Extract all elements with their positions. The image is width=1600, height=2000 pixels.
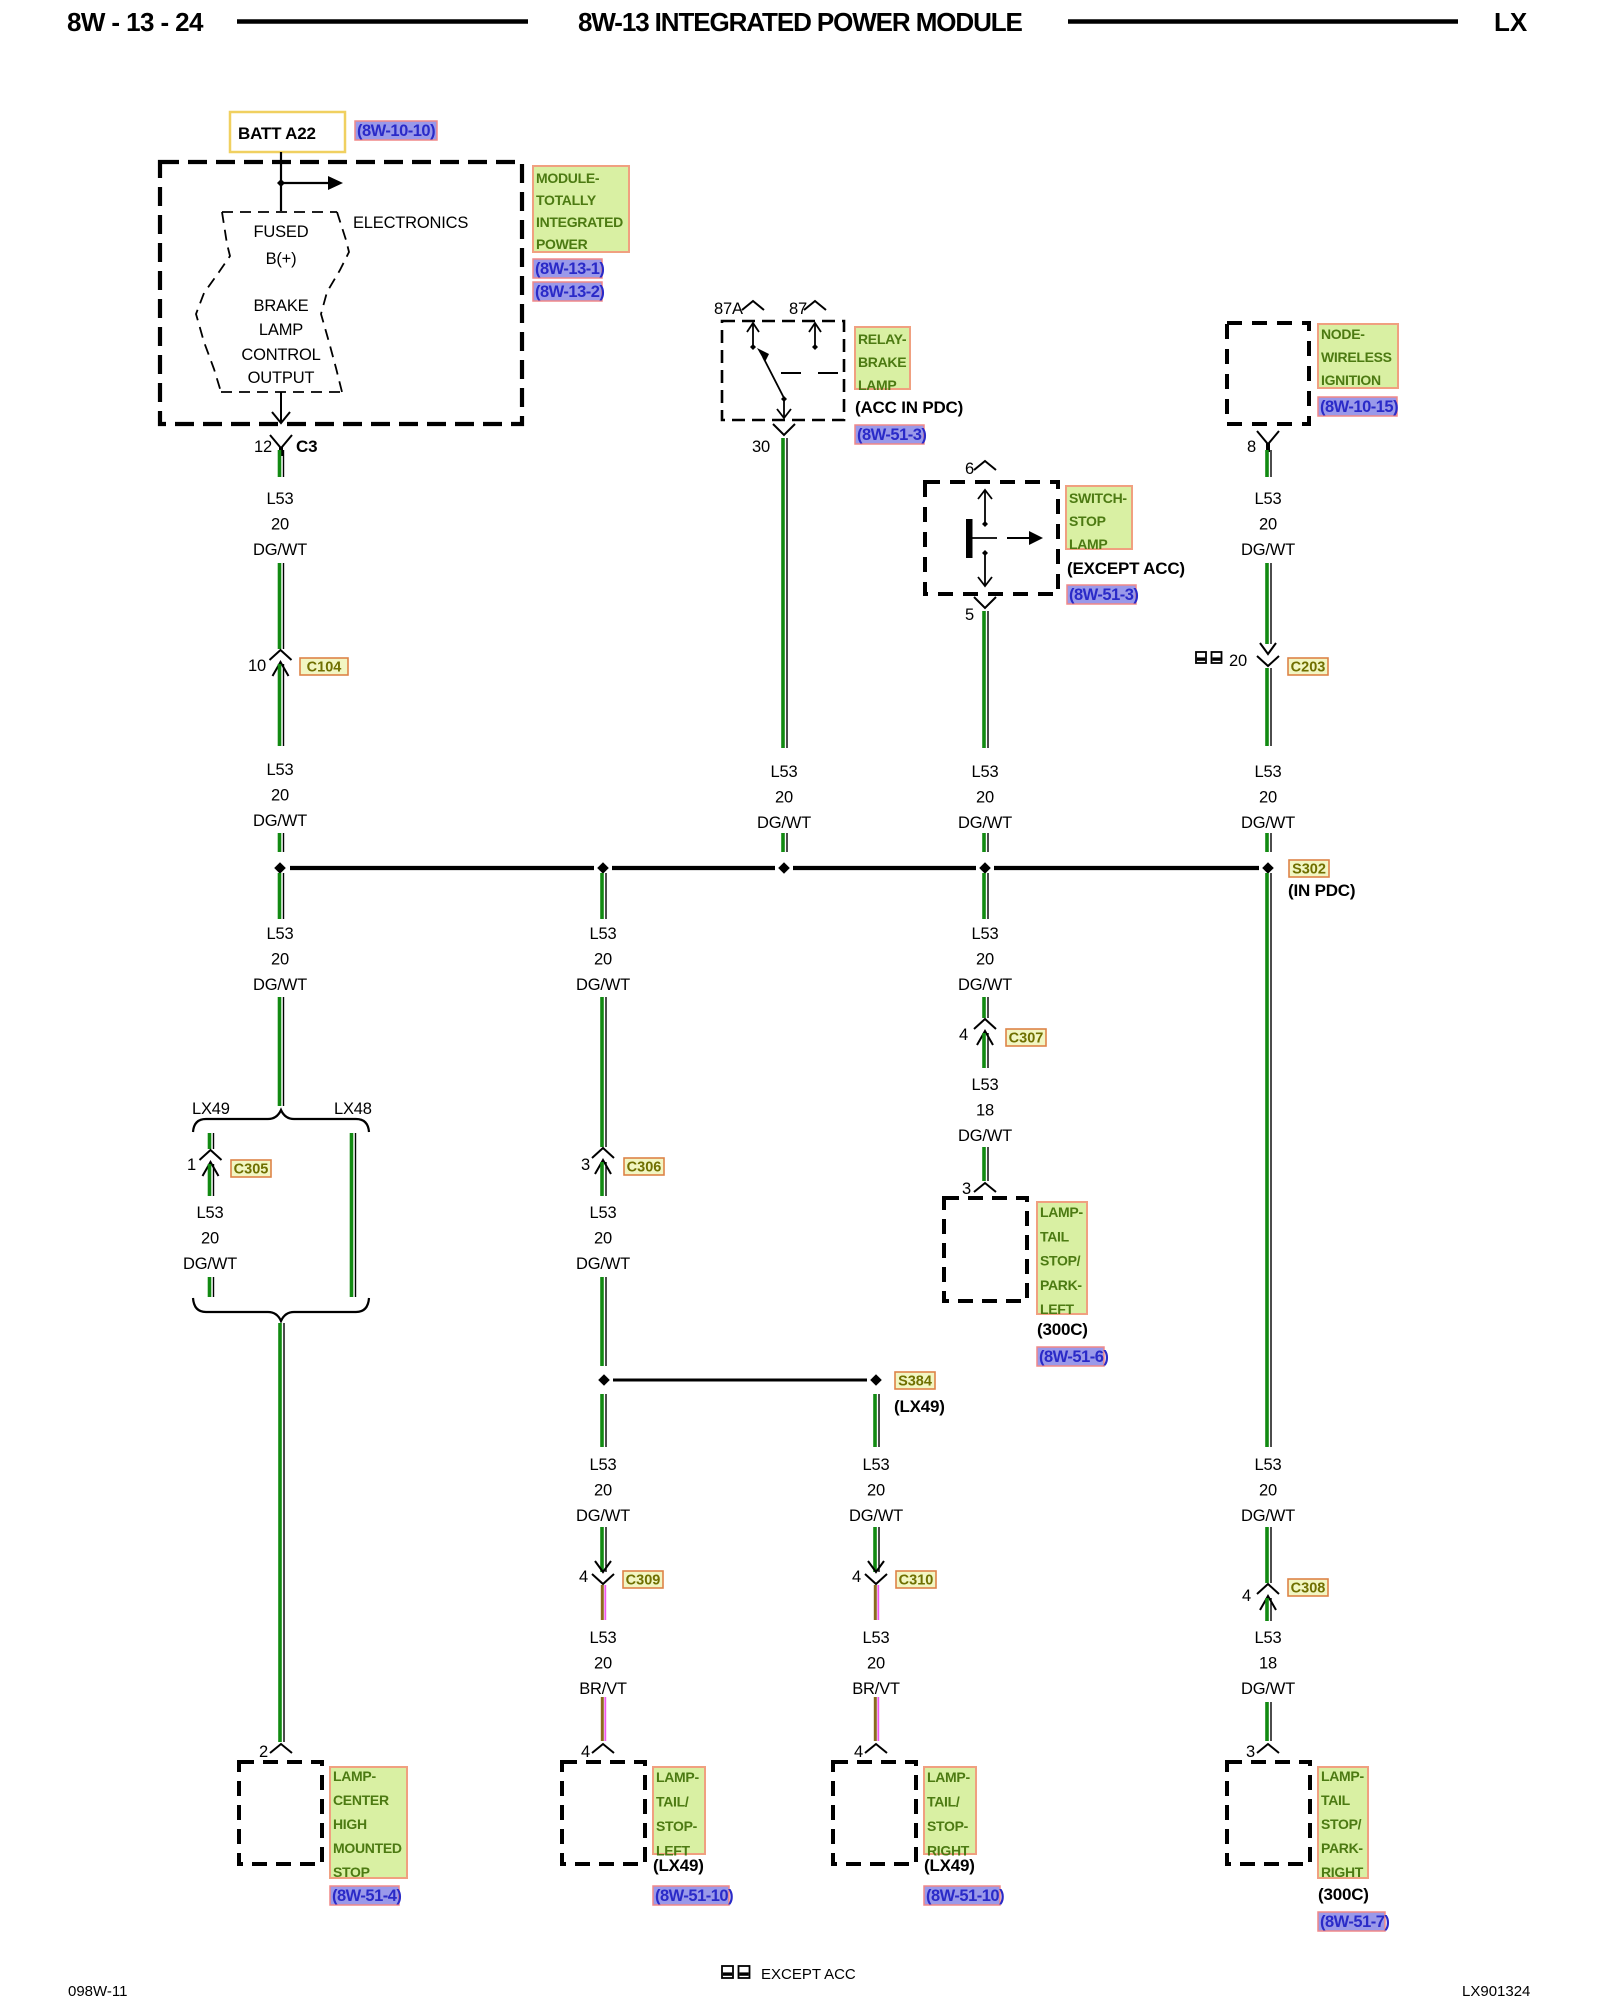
- wire L53 switch 5 to bus: [984, 611, 988, 748]
- junction relay node 30: [781, 396, 787, 402]
- svg-text:(IN PDC): (IN PDC): [1288, 881, 1355, 900]
- label L53 20 DG/WT (B3): [576, 1456, 630, 1525]
- label label LAMP-TAIL/STOP-RIGHT: [924, 1767, 976, 1859]
- label label MODULE-TOTALLY INTEGRATED POWER: [533, 166, 629, 252]
- svg-text:(300C): (300C): [1037, 1320, 1088, 1339]
- label connector C310: [896, 1571, 936, 1589]
- svg-text:LAMP: LAMP: [858, 377, 896, 393]
- svg-text:NODE-: NODE-: [1321, 326, 1365, 342]
- label connector C307: [1006, 1029, 1046, 1047]
- reference (8W-51-3) switch: [1067, 585, 1138, 604]
- svg-text:DG/WT: DG/WT: [1241, 814, 1295, 832]
- label splice S302: [1289, 860, 1329, 878]
- wire L53 below bus (D): [984, 873, 988, 919]
- svg-text:(LX49): (LX49): [924, 1856, 975, 1875]
- svg-text:1: 1: [187, 1156, 196, 1174]
- svg-text:3: 3: [962, 1180, 971, 1198]
- wire L53 below bus (B): [602, 873, 606, 919]
- svg-text:3: 3: [1246, 1743, 1255, 1761]
- svg-text:8W-13 INTEGRATED POWER MODULE: 8W-13 INTEGRATED POWER MODULE: [578, 7, 1023, 37]
- relay contact 87A arrow: [747, 323, 759, 345]
- wire L53 to center high mounted stop lamp: [280, 1323, 284, 1742]
- svg-text:C309: C309: [626, 1573, 661, 1589]
- reference (8W-51-10) left: [653, 1886, 733, 1905]
- svg-text:18: 18: [976, 1102, 994, 1120]
- svg-text:LX: LX: [1494, 7, 1528, 37]
- svg-text:18: 18: [1259, 1655, 1277, 1673]
- svg-text:DG/WT: DG/WT: [253, 541, 307, 559]
- svg-text:(8W-51-10): (8W-51-10): [655, 1887, 733, 1905]
- svg-text:(300C): (300C): [1318, 1885, 1369, 1904]
- reference (8W-13-2): [533, 282, 604, 301]
- module wireless ignition node outline: [1227, 323, 1309, 424]
- svg-text:20: 20: [1259, 789, 1277, 807]
- relay K1 brake lamp outline: [722, 321, 844, 420]
- connector C305 (male up into female chevron): [200, 1150, 222, 1176]
- svg-text:L53: L53: [590, 1456, 617, 1474]
- svg-text:TAIL/: TAIL/: [927, 1794, 960, 1810]
- wire BR/VT from C310: [875, 1585, 878, 1620]
- svg-text:FUSED: FUSED: [254, 223, 309, 241]
- label splice S384: [895, 1372, 935, 1390]
- svg-text:(8W-51-3): (8W-51-3): [857, 426, 926, 444]
- switch actuator bar: [966, 519, 973, 558]
- svg-text:DG/WT: DG/WT: [576, 1507, 630, 1525]
- svg-text:L53: L53: [1255, 1629, 1282, 1647]
- svg-text:C308: C308: [1291, 1581, 1326, 1597]
- wire L53 to bus: [984, 833, 988, 852]
- reference (8W-13-1): [533, 259, 604, 278]
- label L53 20 DG/WT (F1): [1241, 490, 1295, 559]
- svg-text:L53: L53: [771, 763, 798, 781]
- svg-text:10: 10: [248, 657, 266, 675]
- svg-text:STOP-: STOP-: [927, 1818, 969, 1834]
- svg-text:STOP-: STOP-: [656, 1818, 698, 1834]
- lamp tail/stop right outline: [833, 1762, 916, 1864]
- svg-text:LX49: LX49: [192, 1100, 230, 1118]
- svg-text:20: 20: [976, 789, 994, 807]
- svg-text:5: 5: [965, 606, 974, 624]
- svg-text:STOP: STOP: [1069, 513, 1106, 529]
- relay pin 30 arrow: [777, 399, 791, 418]
- svg-text:C3: C3: [296, 437, 317, 456]
- svg-text:STOP/: STOP/: [1321, 1816, 1362, 1832]
- svg-text:12: 12: [254, 438, 272, 456]
- label BRAKE LAMP CONTROL OUTPUT: [241, 297, 320, 387]
- wire L53 from C104: [280, 664, 284, 746]
- svg-text:DG/WT: DG/WT: [849, 1507, 903, 1525]
- svg-text:MODULE-: MODULE-: [536, 170, 600, 186]
- wire L53 to left tail/stop/park lamp: [984, 1147, 988, 1181]
- label L53 20 DG/WT (A3): [253, 925, 307, 994]
- connector chevron switch pin 6: [974, 461, 996, 470]
- wire bus S302 segment 3: [793, 866, 976, 870]
- svg-text:L53: L53: [863, 1456, 890, 1474]
- svg-text:L53: L53: [1255, 490, 1282, 508]
- svg-text:(LX49): (LX49): [894, 1397, 945, 1416]
- wire L53 from C203: [1267, 668, 1271, 746]
- svg-text:L53: L53: [267, 490, 294, 508]
- label L53 18 DG/WT (D3): [958, 1076, 1012, 1145]
- reference (8W-51-4): [330, 1886, 401, 1905]
- fuse BATT A22 box: [230, 112, 345, 152]
- svg-text:HIGH: HIGH: [333, 1816, 367, 1832]
- arrow internal feed: [281, 176, 343, 190]
- wire splice S384 line: [613, 1379, 867, 1382]
- svg-text:TAIL: TAIL: [1321, 1792, 1351, 1808]
- fuse element outline (dashed): [196, 212, 349, 392]
- module U1 TIPM outline: [160, 162, 522, 424]
- wire L53 to bus: [783, 833, 787, 852]
- lamp tail/stop left outline: [562, 1762, 645, 1864]
- wire L53 from C3: [280, 450, 284, 477]
- svg-text:(8W-51-7): (8W-51-7): [1320, 1913, 1389, 1931]
- label connector C104: [300, 658, 348, 676]
- svg-text:S384: S384: [898, 1374, 932, 1390]
- svg-text:LAMP-: LAMP-: [1321, 1768, 1364, 1784]
- junction junction splice S302: [1262, 862, 1274, 874]
- label connector C305: [231, 1160, 271, 1178]
- svg-text:BRAKE: BRAKE: [858, 354, 906, 370]
- svg-text:TAIL: TAIL: [1040, 1228, 1070, 1244]
- connector C104 (male up into female chevron): [270, 650, 292, 676]
- connector C3 pin 12 (Y): [270, 435, 292, 456]
- svg-text:BRAKE: BRAKE: [254, 297, 309, 315]
- switch actuation arrow: [1007, 531, 1043, 545]
- svg-text:DG/WT: DG/WT: [253, 976, 307, 994]
- wire BR/VT from C309: [602, 1585, 605, 1620]
- junction node BATT feed: [277, 179, 285, 187]
- svg-text:C305: C305: [234, 1162, 269, 1178]
- svg-text:DG/WT: DG/WT: [1241, 541, 1295, 559]
- connector chevron lamp pin 2 (CHMSL): [270, 1744, 292, 1753]
- wire L53 to C309: [602, 1527, 606, 1572]
- wire bus S302 segment 4: [994, 866, 1259, 870]
- junction relay node 87: [812, 344, 818, 350]
- svg-text:L53: L53: [1255, 763, 1282, 781]
- svg-text:INTEGRATED: INTEGRATED: [536, 214, 623, 230]
- svg-text:POWER: POWER: [536, 236, 588, 252]
- wire L53 to C306: [602, 997, 606, 1147]
- svg-text:DG/WT: DG/WT: [958, 976, 1012, 994]
- svg-text:8W - 13 - 24: 8W - 13 - 24: [67, 7, 204, 37]
- wire LX49 branch below C305: [210, 1164, 214, 1196]
- svg-text:MOUNTED: MOUNTED: [333, 1840, 402, 1856]
- label label NODE-WIRELESS IGNITION: [1318, 324, 1398, 388]
- svg-text:L53: L53: [267, 925, 294, 943]
- svg-text:8: 8: [1247, 438, 1256, 456]
- svg-text:4: 4: [959, 1026, 968, 1044]
- svg-text:C307: C307: [1009, 1031, 1044, 1047]
- reference (8W-51-7): [1318, 1912, 1389, 1931]
- wire L53 to right park lamp: [1267, 1702, 1271, 1741]
- wire L53 from node: [1267, 450, 1271, 477]
- svg-text:DG/WT: DG/WT: [1241, 1507, 1295, 1525]
- svg-text:L53: L53: [267, 761, 294, 779]
- connector chevron lamp pin 3 (tail stop/park right): [1257, 1744, 1279, 1753]
- svg-text:L53: L53: [197, 1204, 224, 1222]
- svg-text:L53: L53: [972, 1076, 999, 1094]
- wire L53 to C307: [984, 997, 988, 1018]
- label L53 20 DG/WT (F3): [1241, 1456, 1295, 1525]
- svg-text:DG/WT: DG/WT: [253, 812, 307, 830]
- wire L53 from C307: [984, 1033, 988, 1068]
- label label RELAY-BRAKE LAMP: [855, 327, 910, 393]
- svg-text:LAMP: LAMP: [1069, 536, 1107, 552]
- switch lever: [972, 537, 997, 539]
- junction relay node 87A: [750, 344, 756, 350]
- wire L53 from C306: [602, 1162, 606, 1196]
- svg-text:20: 20: [594, 1230, 612, 1248]
- icon except-acc at C203 (except-acc symbol): [1196, 652, 1222, 663]
- wire bus S302 segment 2: [612, 866, 775, 870]
- svg-text:L53: L53: [972, 763, 999, 781]
- svg-text:20: 20: [976, 951, 994, 969]
- label label LAMP-TAIL STOP/PARK-RIGHT: [1318, 1767, 1368, 1880]
- svg-text:B(+): B(+): [266, 250, 297, 268]
- svg-text:4: 4: [854, 1743, 863, 1761]
- svg-text:STOP/: STOP/: [1040, 1253, 1081, 1269]
- label label LAMP-TAIL STOP/PARK-LEFT: [1037, 1202, 1087, 1317]
- svg-text:20: 20: [201, 1230, 219, 1248]
- label L53 20 DG/WT (E1): [849, 1456, 903, 1525]
- label label SWITCH-STOP LAMP: [1066, 486, 1132, 552]
- svg-text:(8W-51-10): (8W-51-10): [926, 1887, 1004, 1905]
- switch pin 6 arrow: [978, 490, 992, 522]
- header rule left: [237, 19, 528, 24]
- svg-text:20: 20: [1259, 516, 1277, 534]
- arrow fuse output: [272, 392, 290, 423]
- label L53 20 BR/VT (E2): [852, 1629, 900, 1698]
- svg-text:LAMP-: LAMP-: [1040, 1204, 1083, 1220]
- label connector C309: [623, 1571, 663, 1589]
- svg-text:BATT A22: BATT A22: [238, 124, 316, 143]
- svg-text:CENTER: CENTER: [333, 1792, 389, 1808]
- svg-text:20: 20: [1229, 652, 1247, 670]
- svg-text:30: 30: [752, 438, 770, 456]
- svg-text:STOP: STOP: [333, 1864, 370, 1880]
- svg-text:2: 2: [259, 1743, 268, 1761]
- svg-text:6: 6: [965, 460, 974, 478]
- lamp tail stop/park left outline: [944, 1198, 1027, 1301]
- relay contact 87 arrow: [809, 323, 821, 345]
- wire L53 below bus (A): [280, 873, 284, 919]
- label L53 20 DG/WT (F2): [1241, 763, 1295, 832]
- svg-text:LX48: LX48: [334, 1100, 372, 1118]
- wire L53 below S384 (B): [602, 1394, 606, 1447]
- svg-text:4: 4: [1242, 1587, 1251, 1605]
- wire L53 to C104: [280, 563, 284, 649]
- relay movable contact: [757, 348, 784, 398]
- svg-text:RIGHT: RIGHT: [1321, 1864, 1364, 1880]
- svg-text:(EXCEPT ACC): (EXCEPT ACC): [1067, 559, 1185, 578]
- svg-text:TOTALLY: TOTALLY: [536, 192, 597, 208]
- label L53 20 DG/WT (B1): [576, 925, 630, 994]
- label FUSED B(+): [254, 223, 309, 268]
- junction junction bus at B: [597, 862, 609, 874]
- connector chevron relay pin 87: [804, 301, 826, 310]
- brace takeout bottom: [193, 1298, 369, 1321]
- icon except-acc legend (except-acc symbol): [722, 1966, 750, 1978]
- svg-text:DG/WT: DG/WT: [1241, 1680, 1295, 1698]
- header rule right: [1068, 19, 1458, 24]
- svg-text:(LX49): (LX49): [653, 1856, 704, 1875]
- svg-text:LX901324: LX901324: [1462, 1983, 1530, 2000]
- svg-text:BR/VT: BR/VT: [852, 1680, 900, 1698]
- svg-text:DG/WT: DG/WT: [576, 976, 630, 994]
- connector chevron lamp pin 4 (tail/stop right): [865, 1744, 887, 1753]
- junction switch node upper: [982, 521, 988, 527]
- junction junction bus at switch: [979, 862, 991, 874]
- wire LX49 branch upper: [210, 1133, 214, 1149]
- connector chevron lamp pin 4 (tail/stop left): [592, 1744, 614, 1753]
- svg-text:20: 20: [867, 1482, 885, 1500]
- connector node pin 8 (Y): [1257, 431, 1279, 452]
- svg-text:L53: L53: [590, 1629, 617, 1647]
- svg-text:(8W-51-6): (8W-51-6): [1039, 1348, 1108, 1366]
- svg-text:L53: L53: [972, 925, 999, 943]
- svg-text:(ACC IN PDC): (ACC IN PDC): [855, 398, 963, 417]
- svg-text:LAMP-: LAMP-: [656, 1769, 699, 1785]
- wire L53 to takeout brace: [280, 997, 284, 1106]
- svg-text:(8W-13-2): (8W-13-2): [535, 283, 604, 301]
- reference (8W-10-10): [355, 121, 437, 140]
- switch S1 stop lamp outline: [925, 482, 1058, 594]
- reference (8W-51-10) right: [924, 1886, 1004, 1905]
- svg-text:20: 20: [775, 789, 793, 807]
- svg-text:(8W-51-3): (8W-51-3): [1069, 586, 1138, 604]
- junction switch node lower: [982, 550, 988, 556]
- label L53 20 DG/WT (B2): [576, 1204, 630, 1273]
- connector C310 (male down into female chevron): [865, 1561, 887, 1584]
- svg-text:ELECTRONICS: ELECTRONICS: [353, 214, 468, 232]
- svg-text:S302: S302: [1292, 862, 1326, 878]
- connector C306 (male up into female chevron): [592, 1148, 614, 1174]
- svg-text:LEFT: LEFT: [1040, 1301, 1075, 1317]
- svg-text:BR/VT: BR/VT: [579, 1680, 627, 1698]
- svg-text:LAMP-: LAMP-: [927, 1769, 970, 1785]
- svg-text:C203: C203: [1291, 660, 1326, 676]
- label L53 20 DG/WT (LX49): [183, 1204, 237, 1273]
- svg-text:C310: C310: [899, 1573, 934, 1589]
- wire L53 to splice S302 bus: [280, 833, 284, 852]
- wire L53 to S302: [1267, 833, 1271, 852]
- wire BR/VT to left tail lamp: [602, 1697, 605, 1741]
- svg-text:098W-11: 098W-11: [68, 1983, 127, 2000]
- svg-text:LAMP: LAMP: [259, 321, 303, 339]
- svg-text:20: 20: [271, 787, 289, 805]
- svg-text:4: 4: [581, 1743, 590, 1761]
- svg-text:WIRELESS: WIRELESS: [1321, 349, 1392, 365]
- svg-text:PARK-: PARK-: [1040, 1277, 1082, 1293]
- relay coil dashes: [781, 372, 844, 374]
- label L53 20 DG/WT (D2): [958, 925, 1012, 994]
- svg-text:20: 20: [1259, 1482, 1277, 1500]
- reference (8W-51-6): [1037, 1347, 1108, 1366]
- svg-text:RELAY-: RELAY-: [858, 331, 907, 347]
- connector chevron lamp pin 3 (left park): [974, 1183, 996, 1192]
- wire L53 to C203: [1267, 563, 1271, 644]
- wire LX48 branch: [352, 1133, 356, 1297]
- label L53 20 DG/WT (D1): [958, 763, 1012, 832]
- svg-text:IGNITION: IGNITION: [1321, 372, 1381, 388]
- svg-text:(8W-10-10): (8W-10-10): [357, 122, 435, 140]
- svg-text:CONTROL: CONTROL: [241, 346, 320, 364]
- label L53 20 BR/VT (B4): [579, 1629, 627, 1698]
- lamp tail stop/park right outline: [1227, 1762, 1310, 1864]
- wire L53 to C308: [1267, 1527, 1271, 1583]
- svg-text:SWITCH-: SWITCH-: [1069, 490, 1127, 506]
- connector C307 (male up into female chevron): [974, 1019, 996, 1045]
- label connector C308: [1288, 1579, 1328, 1597]
- svg-text:4: 4: [579, 1568, 588, 1586]
- junction junction splice S384: [870, 1374, 882, 1386]
- svg-text:4: 4: [852, 1568, 861, 1586]
- lamp center high mounted stop outline: [239, 1762, 322, 1864]
- connector C309 (male down into female chevron): [592, 1561, 614, 1584]
- svg-text:(8W-51-4): (8W-51-4): [332, 1887, 401, 1905]
- label L53 20 DG/WT (A1): [253, 490, 307, 559]
- wire BR/VT to right tail lamp: [875, 1697, 878, 1741]
- connector chevron switch pin 5 chevron: [974, 597, 996, 608]
- svg-text:OUTPUT: OUTPUT: [248, 369, 315, 387]
- junction junction bus at relay: [778, 862, 790, 874]
- svg-text:20: 20: [594, 1655, 612, 1673]
- wire L53 S302 to C308 run: [1267, 873, 1271, 1447]
- connector C203 (male down into female chevron): [1257, 643, 1279, 666]
- svg-text:PARK-: PARK-: [1321, 1840, 1363, 1856]
- switch pin 5 arrow: [978, 555, 992, 586]
- svg-text:DG/WT: DG/WT: [576, 1255, 630, 1273]
- svg-text:L53: L53: [863, 1629, 890, 1647]
- svg-text:3: 3: [581, 1156, 590, 1174]
- wire BATT to fuse: [280, 152, 282, 211]
- brace takeout top: [193, 1110, 369, 1132]
- connector C308 (male up into female chevron): [1257, 1584, 1279, 1610]
- junction junction S384 left: [598, 1374, 610, 1386]
- svg-text:DG/WT: DG/WT: [958, 814, 1012, 832]
- wire L53 relay 30 to bus: [783, 438, 787, 748]
- svg-text:DG/WT: DG/WT: [183, 1255, 237, 1273]
- svg-text:C306: C306: [627, 1160, 662, 1176]
- wire bus S302 segment 1: [290, 866, 594, 870]
- svg-text:EXCEPT ACC: EXCEPT ACC: [761, 1966, 856, 1983]
- svg-text:(8W-13-1): (8W-13-1): [535, 260, 604, 278]
- svg-text:DG/WT: DG/WT: [757, 814, 811, 832]
- label L53 20 DG/WT (C1): [757, 763, 811, 832]
- label label LAMP-TAIL/STOP-LEFT: [653, 1767, 705, 1859]
- svg-text:87A: 87A: [714, 300, 743, 318]
- svg-text:L53: L53: [1255, 1456, 1282, 1474]
- svg-text:LAMP-: LAMP-: [333, 1768, 376, 1784]
- reference (8W-10-15): [1318, 397, 1398, 416]
- svg-text:(8W-10-15): (8W-10-15): [1320, 398, 1398, 416]
- junction junction bus at A: [274, 862, 286, 874]
- wire L53 to C310: [875, 1527, 879, 1572]
- svg-text:20: 20: [594, 1482, 612, 1500]
- svg-text:DG/WT: DG/WT: [958, 1127, 1012, 1145]
- svg-text:20: 20: [271, 516, 289, 534]
- label label LAMP-CENTER HIGH MOUNTED STOP: [330, 1767, 407, 1880]
- label connector C203: [1288, 658, 1328, 676]
- wire L53 below S384 (E): [875, 1394, 879, 1447]
- label L53 20 DG/WT (A2): [253, 761, 307, 830]
- svg-text:L53: L53: [590, 925, 617, 943]
- connector chevron relay pin 87A: [742, 301, 764, 310]
- reference (8W-51-3) relay: [855, 425, 926, 444]
- label L53 18 DG/WT (F4): [1241, 1629, 1295, 1698]
- svg-text:L53: L53: [590, 1204, 617, 1222]
